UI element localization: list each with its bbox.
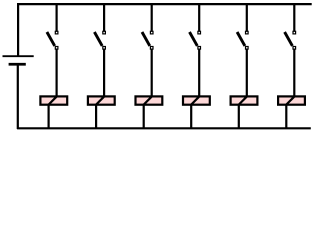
wire: top rail to switch S4: [198, 3, 200, 32]
switch S5 (open): [237, 31, 248, 49]
fuse F4: [183, 96, 210, 105]
wire: fuse F1 to bottom rail: [47, 105, 49, 130]
wire: top rail to switch S2: [103, 3, 105, 32]
wire: fuse F3 to bottom rail: [143, 105, 145, 130]
wire: switch S2 to fuse F2: [103, 49, 105, 97]
switch S3 (open): [142, 31, 153, 49]
wire: fuse F5 to bottom rail: [238, 105, 240, 130]
wire: top rail to switch S5: [246, 3, 248, 32]
wire: top rail to battery positive plate: [17, 3, 19, 56]
bottom rail wire: [17, 127, 311, 129]
switch S6 (open): [285, 31, 296, 49]
fuse F6: [278, 96, 305, 105]
switch S2 (open): [94, 31, 105, 49]
wire: top rail to switch S6: [293, 3, 295, 32]
wire: switch S5 to fuse F5: [246, 49, 248, 97]
switch S4 (open): [190, 31, 201, 49]
wire: switch S1 to fuse F1: [55, 49, 57, 97]
fuse F2: [88, 96, 115, 105]
wire: battery negative plate to bottom rail: [17, 64, 19, 129]
wire: fuse F4 to bottom rail: [190, 105, 192, 130]
wire: switch S4 to fuse F4: [198, 49, 200, 97]
wire: switch S6 to fuse F6: [293, 49, 295, 97]
wire: top rail to switch S3: [151, 3, 153, 32]
fuse F5: [231, 96, 258, 105]
fuse F1: [40, 96, 67, 105]
wire: fuse F6 to bottom rail: [285, 105, 287, 130]
fuse F3: [136, 96, 163, 105]
top rail wire: [17, 3, 312, 5]
wire: top rail to switch S1: [55, 3, 57, 32]
wire: fuse F2 to bottom rail: [95, 105, 97, 130]
switch S1 (open): [47, 31, 58, 49]
wire: switch S3 to fuse F3: [151, 49, 153, 97]
battery B1: [3, 56, 34, 64]
